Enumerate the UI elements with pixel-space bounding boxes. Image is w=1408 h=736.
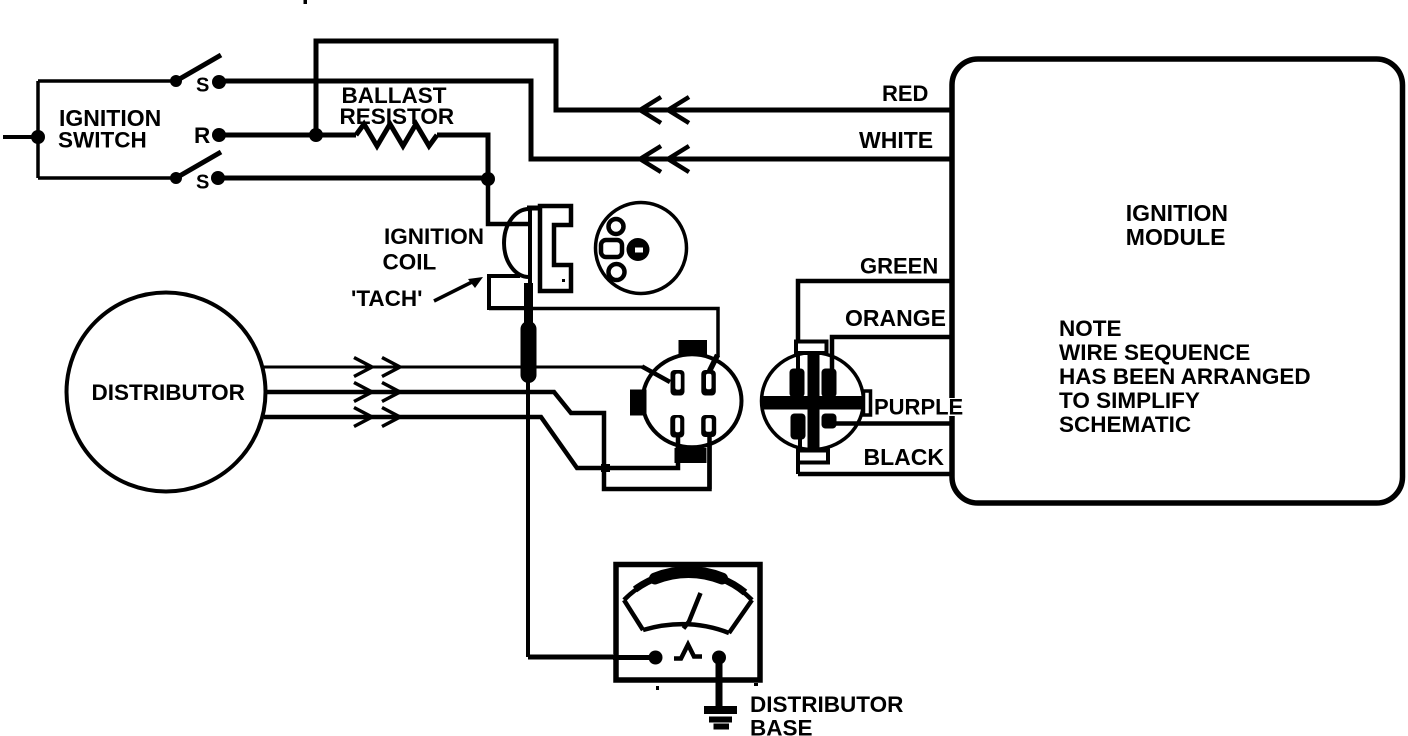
svg-text:BLACK: BLACK [864, 444, 945, 470]
svg-text:S: S [196, 75, 209, 97]
stub wire to pin top-right [710, 355, 718, 371]
wire resistor to coil junction [437, 135, 488, 180]
meter gauge inner arc and ends [624, 600, 752, 633]
terminal S bottom dot [211, 171, 225, 185]
wire into meter left terminal [613, 655, 655, 660]
ignition module box [952, 59, 1403, 503]
meter gauge outer arc [624, 572, 752, 600]
svg-text:'TACH': 'TACH' [351, 286, 423, 311]
svg-text:NOTE: NOTE [1059, 316, 1122, 341]
ignition coil body arc [504, 209, 529, 277]
svg-text:PURPLE: PURPLE [874, 395, 963, 420]
node coil feed junction [481, 172, 495, 186]
arrows bottom wire [354, 408, 400, 427]
connector bottom tab [675, 448, 707, 463]
WHITE wire label [859, 127, 933, 153]
speck below meter [656, 683, 758, 690]
svg-text:WIRE SEQUENCE: WIRE SEQUENCE [1059, 340, 1250, 365]
wire distributor pickup thin [263, 367, 673, 380]
BLACK label [864, 444, 945, 470]
wire R to bypass top line to RED [316, 41, 950, 135]
svg-text:TO SIMPLIFY: TO SIMPLIFY [1059, 388, 1200, 413]
stem pin bottom-right down [707, 436, 712, 489]
WHITE wire arrows [640, 146, 689, 172]
stem pin bottom-left to tab [676, 436, 681, 450]
distributor label [92, 380, 245, 405]
ignition switch label [58, 105, 161, 153]
cap center terminal [627, 238, 650, 261]
stray mark top edge [304, 0, 308, 4]
'TACH' label [351, 286, 423, 311]
RED wire arrows [640, 97, 689, 123]
arrows middle wire [354, 383, 400, 402]
distributor base label [750, 692, 903, 736]
node battery junction [31, 130, 45, 144]
coil tower wire with thick boot [521, 283, 537, 657]
ballast resistor label [340, 83, 455, 129]
module connector cross horizontal [763, 396, 862, 410]
svg-text:RESISTOR: RESISTOR [340, 104, 455, 129]
BLACK wire [798, 472, 953, 477]
ORANGE label [845, 305, 946, 331]
module connector pin bottom-left [791, 414, 806, 440]
svg-text:S: S [196, 172, 209, 194]
node R bypass junction [309, 128, 323, 142]
note text [1059, 316, 1311, 437]
connector pin bottom-right [701, 415, 716, 437]
cap slot [601, 240, 622, 257]
ORANGE wire [832, 337, 951, 369]
distributor cap connector circle [596, 203, 687, 294]
wire distributor middle [266, 392, 710, 489]
node wire crossing tick [601, 464, 610, 472]
svg-text:ORANGE: ORANGE [845, 305, 946, 331]
connector top tab [679, 340, 708, 355]
PURPLE wire [836, 421, 951, 426]
ignition coil center conductor [527, 207, 565, 300]
terminal S bottom label [196, 172, 209, 194]
svg-text:SCHEMATIC: SCHEMATIC [1059, 412, 1191, 437]
ballast resistor [356, 124, 437, 146]
svg-text:BASE: BASE [750, 716, 813, 736]
wire R to resistor [219, 133, 356, 138]
terminal S top dot [212, 75, 226, 89]
svg-text:WHITE: WHITE [859, 127, 933, 153]
RED wire label [882, 81, 928, 106]
ignition switch box [38, 81, 176, 178]
svg-text:IGNITION: IGNITION [384, 224, 484, 249]
cap small circle bottom [609, 264, 625, 280]
svg-text:IGNITION: IGNITION [1126, 200, 1228, 226]
ignition module label [1126, 200, 1228, 250]
GREEN label [860, 254, 938, 279]
battery feed wire [3, 135, 38, 139]
svg-text:MODULE: MODULE [1126, 224, 1226, 250]
wire junction down to coil [488, 180, 528, 224]
terminal R dot [212, 128, 226, 142]
cap small circle top [609, 219, 624, 234]
distributor circle [67, 293, 266, 492]
tach terminal box [489, 276, 524, 308]
ignition coil label [383, 224, 485, 275]
distributor connector circle [643, 354, 742, 447]
meter caret symbol [674, 645, 702, 659]
svg-text:R: R [194, 123, 210, 148]
GREEN wire [798, 281, 951, 342]
svg-text:SWITCH: SWITCH [58, 128, 147, 153]
connector pin bottom-left [670, 415, 684, 438]
PURPLE label (over border gap) [874, 395, 964, 420]
wire tach box to connector [489, 309, 718, 358]
module connector bottom tab [798, 439, 828, 474]
wire meter to ground [716, 657, 723, 706]
svg-text:RED: RED [882, 81, 928, 106]
svg-text:GREEN: GREEN [860, 254, 938, 279]
wire pickup diagonal into connector [642, 367, 670, 383]
connector pin top-right [701, 370, 716, 396]
ignition coil bracket [540, 206, 571, 291]
module connector pin bottom-right [822, 414, 837, 429]
wire S top to WHITE [219, 81, 950, 159]
meter terminal right [712, 651, 726, 665]
ground symbol [704, 710, 737, 727]
svg-text:HAS BEEN ARRANGED: HAS BEEN ARRANGED [1059, 364, 1311, 389]
wire coil tower to meter [528, 655, 613, 660]
meter terminal left [649, 651, 663, 665]
meter needle [684, 593, 701, 629]
terminal R label [194, 123, 210, 148]
switch blade S bottom [170, 152, 221, 184]
connector left tab [630, 390, 647, 416]
switch blade S top [170, 55, 221, 87]
wire S bottom to coil junction [218, 176, 488, 181]
terminal S top label [196, 75, 209, 97]
svg-text:COIL: COIL [383, 250, 437, 275]
dwell meter box [616, 565, 760, 681]
module connector right tab [864, 391, 871, 415]
module connector circle [762, 353, 864, 450]
svg-text:DISTRIBUTOR: DISTRIBUTOR [92, 380, 245, 405]
connector pin top-left [671, 370, 685, 396]
module connector pin top-right [822, 369, 837, 398]
arrows pickup thin wire [354, 358, 400, 377]
tach arrow [434, 277, 483, 301]
wire distributor bottom [264, 417, 678, 468]
svg-text:DISTRIBUTOR: DISTRIBUTOR [750, 692, 903, 717]
module connector top tab [796, 342, 827, 370]
module connector pin top-left [790, 369, 805, 398]
module connector cross vertical [808, 354, 820, 449]
